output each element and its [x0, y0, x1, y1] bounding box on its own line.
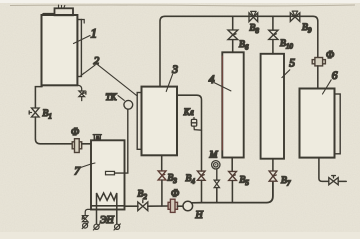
wire tank4 bottom to B5 — [231, 158, 233, 172]
scan artifact top line — [10, 4, 355, 7]
wire tank7 outlet to valve B2 — [125, 205, 139, 207]
svg-text:Ф: Ф — [171, 188, 179, 199]
svg-text:Ф: Ф — [71, 127, 79, 138]
tank 5 — [261, 54, 284, 159]
wire valve to gauge — [216, 169, 218, 180]
wire tank3 right side to corner (B4 riser) — [177, 95, 202, 171]
valve B5 — [229, 171, 237, 180]
valve B9 — [290, 11, 300, 21]
thermometer TK — [106, 96, 133, 175]
valve B7 — [269, 171, 277, 181]
valve B6 — [228, 30, 238, 40]
wire B6 to tank4 top — [232, 40, 234, 53]
valve B2 — [138, 200, 148, 210]
wire B4 down to bottom main — [201, 180, 203, 202]
tank 3 — [137, 87, 177, 156]
svg-text:1: 1 — [91, 26, 98, 41]
valve B1 — [29, 108, 39, 117]
svg-text:6: 6 — [332, 70, 338, 82]
tank 6 — [300, 89, 341, 158]
svg-text:ЭН: ЭН — [100, 215, 115, 226]
svg-text:3: 3 — [171, 64, 178, 76]
tank 7 — [91, 140, 125, 209]
pump N — [183, 201, 202, 211]
wire header to B6 — [232, 16, 234, 30]
filter F2 — [168, 199, 177, 212]
wire header to B10 — [272, 16, 274, 30]
valve B10 — [269, 30, 278, 39]
svg-text:4: 4 — [209, 74, 215, 86]
header wire from tank3 riser to filter F3 — [160, 16, 318, 86]
svg-text:Н: Н — [195, 210, 204, 221]
bottom main wire pump to B7 riser — [202, 181, 273, 202]
wire tank5 bottom to B7 — [272, 159, 274, 171]
heater terminal left — [93, 224, 99, 230]
wire filter F2 to pump — [178, 205, 184, 207]
label 1 — [74, 26, 98, 44]
wire B10 to tank5 top — [272, 40, 274, 54]
tank 7 left drain valve — [82, 209, 91, 228]
manometer M — [212, 161, 220, 169]
relief valve Kl — [191, 118, 201, 131]
wire B1 down, curve right to filter — [35, 117, 72, 144]
svg-text:Кл: Кл — [183, 107, 194, 117]
filter F3 — [312, 58, 325, 66]
label 4 — [209, 74, 231, 91]
svg-text:5: 5 — [289, 58, 295, 70]
wire filter to tank 7 — [82, 143, 91, 145]
drain valve on tank 1 (item 2) — [78, 85, 86, 100]
filter F1 — [72, 139, 82, 153]
svg-text:М: М — [209, 150, 219, 160]
wire after drain valve — [338, 180, 346, 182]
tank 6 drain valve — [329, 176, 338, 185]
wire B3 to bottom line — [161, 180, 163, 206]
svg-text:Ф: Ф — [326, 50, 334, 61]
label 2 with leaders — [81, 55, 137, 96]
label 7 — [74, 163, 95, 178]
svg-text:ТК: ТК — [106, 92, 118, 102]
manometer M branch wire — [216, 188, 218, 203]
wire tank1 to valve B1 — [35, 87, 42, 108]
wire B2 to filter F2 / junction with B3 line — [148, 205, 168, 207]
tank 4 — [222, 52, 243, 157]
terminal bracket on tank 7 top — [93, 135, 101, 140]
heater terminal right — [114, 224, 120, 230]
wire tank6 bottom drain — [319, 158, 329, 182]
gauge valve under M — [214, 180, 219, 188]
svg-text:2: 2 — [94, 55, 100, 67]
label 6 — [323, 70, 338, 94]
tank 1 — [42, 5, 85, 85]
wire B5 to bottom main — [231, 181, 233, 203]
label 5 — [282, 58, 295, 78]
valve B3 — [158, 171, 166, 180]
wire tank3 bottom to valve B3 — [161, 155, 163, 170]
valve B4 — [197, 171, 205, 180]
valve B8 — [249, 11, 258, 21]
label 3 — [166, 64, 178, 91]
heater EN zigzag — [97, 193, 117, 224]
wire filter F3 to tank 6 — [317, 66, 319, 89]
